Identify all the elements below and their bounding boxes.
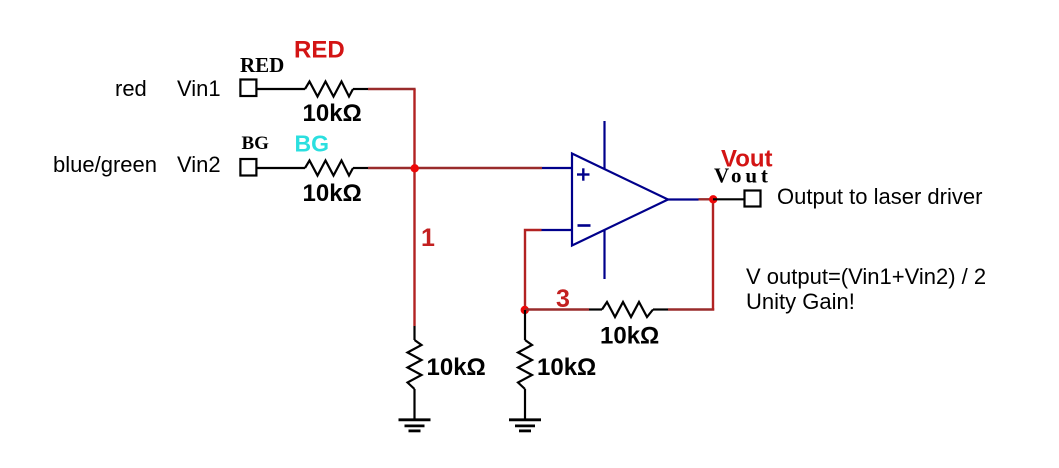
wire black lead below node 3 bbox=[524, 310, 526, 340]
pin output stub (blue) bbox=[667, 198, 699, 200]
resistor R2 10kΩ bbox=[305, 161, 353, 176]
ground (under R4) bbox=[509, 420, 541, 431]
svg-text:Output to laser driver: Output to laser driver bbox=[777, 184, 982, 209]
wire node 3 to R5 (red horizontal) bbox=[525, 308, 589, 310]
node 1 junction dot bbox=[411, 164, 419, 172]
wire Vin2 to R2 bbox=[257, 167, 306, 169]
svg-text:1: 1 bbox=[421, 224, 435, 252]
wire Vin1 to R1 bbox=[257, 88, 306, 90]
pin - input stub (blue) bbox=[542, 229, 573, 231]
wire op-amp out to node (red) bbox=[699, 198, 714, 200]
wire - input corner (red) bbox=[525, 230, 542, 310]
terminal Vout (square pad) bbox=[745, 191, 761, 207]
node 3 junction dot bbox=[521, 306, 529, 314]
svg-text:BG: BG bbox=[242, 133, 270, 154]
svg-text:10kΩ: 10kΩ bbox=[303, 100, 362, 127]
wire black lead left of R5 bbox=[589, 308, 602, 310]
wire R4 to ground bbox=[524, 389, 526, 420]
svg-text:Vin2: Vin2 bbox=[177, 152, 221, 177]
resistor R4 10kΩ (vertical) bbox=[518, 340, 532, 389]
svg-text:blue/green: blue/green bbox=[53, 152, 157, 177]
svg-text:V output=(Vin1+Vin2) / 2: V output=(Vin1+Vin2) / 2 bbox=[746, 264, 986, 289]
svg-text:10kΩ: 10kΩ bbox=[427, 354, 486, 381]
op-amp U1 triangle bbox=[572, 154, 668, 246]
op-amp - symbol bbox=[578, 224, 591, 227]
svg-text:Vin1: Vin1 bbox=[177, 76, 221, 101]
wire black lead to R3 bbox=[413, 326, 415, 340]
svg-text:Unity Gain!: Unity Gain! bbox=[746, 289, 855, 314]
wire R1 to node (red horizontal) bbox=[368, 88, 416, 90]
resistor R3 10kΩ (vertical) bbox=[408, 340, 422, 389]
svg-text:BG: BG bbox=[295, 131, 330, 157]
wire vertical red column node 1 (down from row1 corner) bbox=[413, 89, 415, 326]
svg-text:10kΩ: 10kΩ bbox=[303, 180, 362, 207]
wire output column vertical (red) bbox=[712, 199, 714, 310]
svg-text:Vout: Vout bbox=[714, 164, 772, 188]
resistor R5 10kΩ (feedback) bbox=[602, 302, 653, 317]
svg-text:10kΩ: 10kΩ bbox=[537, 354, 596, 381]
svg-text:red: red bbox=[115, 76, 147, 101]
wire node 1 to op-amp + (red horizontal) bbox=[415, 167, 543, 169]
svg-text:RED: RED bbox=[294, 37, 345, 64]
wire R1 right (black) bbox=[353, 88, 368, 90]
op-amp power rail top bbox=[603, 121, 605, 169]
resistor R1 10kΩ bbox=[305, 82, 353, 97]
wire R2 to node 1 (red horizontal) bbox=[368, 167, 415, 169]
wire node to Vout terminal (black) bbox=[713, 198, 745, 200]
wire R2 right (black) bbox=[353, 167, 368, 169]
wire R5 to output column (red horizontal) bbox=[668, 308, 714, 310]
terminal Vin2 (square pad) bbox=[240, 159, 256, 176]
wire black lead right of R5 bbox=[653, 308, 668, 310]
ground (under R3) bbox=[399, 420, 431, 431]
svg-text:RED: RED bbox=[240, 53, 284, 77]
svg-text:10kΩ: 10kΩ bbox=[600, 323, 659, 350]
pin + input stub (blue) bbox=[542, 167, 572, 169]
op-amp + symbol bbox=[577, 168, 590, 180]
op-amp power rail bottom bbox=[603, 231, 605, 280]
wire R3 to ground bbox=[413, 389, 415, 420]
node Vout junction dot bbox=[709, 195, 717, 203]
terminal Vin1 (square pad) bbox=[240, 80, 256, 97]
